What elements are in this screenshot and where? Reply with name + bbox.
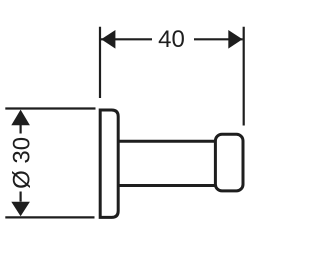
- dimension 40: left dimension line segment: [101, 38, 152, 40]
- wall plate (side view, rounded right corners): [100, 110, 118, 217]
- stem top line: [118, 140, 215, 143]
- dimension 40: right dimension line segment: [194, 38, 243, 40]
- knob (end cap, rounded rectangle): [215, 134, 243, 191]
- dimension Ø30: bottom extension line: [5, 216, 94, 218]
- dimension 40: left extension line: [99, 27, 101, 98]
- dimension Ø30: top extension line: [5, 107, 95, 109]
- dimension Ø30: down arrowhead: [11, 202, 30, 217]
- dimension 40: right extension line: [243, 27, 245, 126]
- dimension 40: right arrowhead: [228, 30, 242, 49]
- dimension 40: left arrowhead: [101, 30, 115, 49]
- svg-text:40: 40: [158, 26, 185, 53]
- svg-text:Ø 30: Ø 30: [8, 137, 35, 189]
- dimension Ø30: lower dimension line stub: [20, 192, 22, 202]
- dimension Ø30: up arrowhead: [11, 110, 30, 126]
- stem bottom line: [118, 184, 215, 187]
- dimension Ø30: upper dimension line stub: [20, 125, 22, 134]
